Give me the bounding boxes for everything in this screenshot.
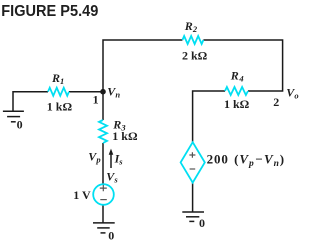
wire: left ground corner to R1 left lead (13, 92, 48, 112)
svg-text:1 kΩ: 1 kΩ (224, 97, 250, 111)
node 1 junction dot (100, 89, 106, 95)
wire: R4 left lead to dependent source top (193, 91, 225, 142)
wire: R1 right lead to node 1 (69, 91, 103, 93)
svg-text:2 kΩ: 2 kΩ (182, 48, 208, 62)
dependent source plus sign (189, 152, 195, 158)
wire: dependent source bottom to right ground (192, 183, 194, 212)
svg-text:1 kΩ: 1 kΩ (47, 100, 73, 114)
resistor R1 (48, 88, 69, 96)
resistor R4 (225, 87, 248, 95)
ground (left, node 0) (3, 111, 24, 122)
wire: source Vs bottom to middle ground (102, 205, 104, 223)
wire: node 1 down to R3 top (102, 92, 104, 120)
current Is arrow (110, 154, 112, 168)
svg-text:FIGURE P5.49: FIGURE P5.49 (1, 3, 98, 20)
ground (middle, node 0) (93, 223, 115, 233)
svg-text:1 kΩ: 1 kΩ (112, 129, 138, 143)
svg-text:1 V: 1 V (73, 188, 91, 202)
source Vs plus sign (100, 185, 107, 191)
svg-text:1: 1 (93, 93, 99, 107)
svg-text:0: 0 (199, 216, 205, 230)
resistor R2 (182, 36, 203, 44)
svg-text:0: 0 (17, 117, 23, 131)
source Vs minus sign (100, 199, 107, 201)
voltage source Vs (1 V) (93, 184, 114, 205)
svg-text:200 (Vp−Vn): 200 (Vp−Vn) (207, 152, 285, 169)
svg-text:2: 2 (273, 95, 279, 109)
dependent source (diamond) (181, 142, 205, 182)
resistor R3 (vertical) (99, 120, 107, 143)
wire: node 1 up to top rail, top rail to R2 left lead (103, 40, 182, 92)
svg-text:0: 0 (108, 228, 114, 240)
dependent source minus sign (190, 168, 196, 170)
wire: R3 bottom to source Vs top (102, 143, 104, 184)
ground (right, node 0) (182, 212, 204, 221)
wire: R2 right lead along top rail, down right side to node 2 (203, 40, 282, 91)
